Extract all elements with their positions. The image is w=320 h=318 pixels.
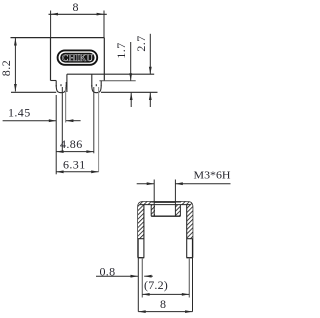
dimension 2.7 up arrow below [149, 93, 151, 107]
body left edge [50, 38, 52, 81]
inner top line [140, 204, 191, 206]
right slot center stub [95, 84, 97, 86]
boss inner hatch edge right [179, 205, 181, 217]
svg-text:8.2: 8.2 [0, 60, 13, 77]
bottom right extension line (2.7/1.7 datum) [101, 91, 158, 93]
CHIKU logo outer stadium [58, 50, 98, 64]
notch left wall [66, 74, 68, 92]
0.8 right line+arrow [144, 275, 153, 277]
svg-text:CHIKU: CHIKU [62, 54, 93, 64]
wall bottom tick left [138, 257, 144, 259]
hole right edge / ext line [174, 180, 176, 217]
dimension 8.2: stem [14, 38, 16, 91]
dimension 8.2 arrowheads [14, 38, 17, 45]
body top edge with 8.2 extension [11, 37, 105, 39]
svg-text:8: 8 [160, 297, 166, 311]
M3 dim right arrow + leader [175, 183, 230, 185]
left slot arc [56, 85, 66, 93]
left step [51, 80, 57, 82]
bottom left extension line (8.2 datum) [11, 91, 56, 93]
shared extension line x=56.2 (1.45/4.86/6.31) [55, 95, 57, 174]
dimension 8 ext lines [50, 11, 52, 38]
svg-text:1.7: 1.7 [114, 42, 128, 58]
svg-text:1.45: 1.45 [8, 106, 31, 120]
hatched left wall [138, 202, 144, 239]
hatched boss [151, 205, 180, 217]
left slot right wall [65, 82, 67, 86]
svg-text:(7.2): (7.2) [144, 278, 168, 292]
top edge line over hole [154, 201, 175, 203]
hatched top band left [144, 202, 151, 205]
body right edge [103, 38, 105, 81]
CHIKU logo inner stadium [60, 53, 94, 63]
dimension 6.31 line [56, 171, 98, 173]
hole left edge / ext line [153, 180, 155, 217]
svg-text:8: 8 [73, 0, 79, 14]
right tab left wall [91, 74, 93, 86]
dimension 1.45 right line+arrow [66, 120, 81, 122]
0.8 left line+arrow [96, 275, 138, 277]
right slot arc [92, 85, 101, 93]
left pin line [61, 87, 63, 152]
(7.2) dim line [142, 293, 189, 295]
dimension 1.7 stem down [130, 42, 132, 81]
wall inner edge left [143, 205, 145, 258]
left slot center stub [60, 84, 62, 86]
hatch bottom tick right [187, 238, 193, 240]
dimension 8 top: line [49, 13, 107, 15]
left thin inner gray line (7.2 ext) [141, 258, 143, 298]
right step surface extension (1.7 datum) [99, 80, 135, 82]
hatched top band right [180, 202, 186, 205]
right pin gray line (6.31 ext) [98, 87, 100, 172]
notch bottom with right extension [67, 73, 154, 75]
right thin outer line (8 ext) [192, 258, 194, 312]
boss bottom line [151, 215, 180, 217]
svg-text:6.31: 6.31 [63, 158, 86, 172]
hatched right wall [187, 202, 193, 239]
wall inner edge right [186, 205, 188, 258]
right slot right wall [100, 81, 102, 86]
left pin gray line (1.45 right ext) [65, 87, 67, 123]
svg-text:M3*6H: M3*6H [194, 169, 231, 181]
svg-text:2.7: 2.7 [134, 35, 148, 51]
dimension 1.7 up arrow below [130, 93, 132, 107]
right pin line (4.86 ext) [93, 87, 95, 153]
hole white fill [155, 202, 175, 215]
left thin outer line (8 ext) [137, 258, 139, 312]
svg-text:4.86: 4.86 [60, 137, 83, 151]
boss inner hatch edge left [150, 205, 152, 217]
dimension 8 arrowheads [51, 13, 58, 16]
dimension 4.86 line [56, 151, 94, 153]
hatch bottom tick left [138, 238, 144, 240]
right thin inner gray line (7.2 ext) [188, 258, 190, 298]
M3 dim left arrow [137, 183, 154, 185]
wall bottom tick right [186, 257, 193, 259]
outer shell path [138, 202, 193, 258]
dimension 2.7 stem down [149, 34, 151, 74]
left slot left wall [55, 81, 57, 87]
dimension 1.45 left line+arrow [3, 120, 57, 122]
8 bottom dim line [138, 311, 192, 313]
